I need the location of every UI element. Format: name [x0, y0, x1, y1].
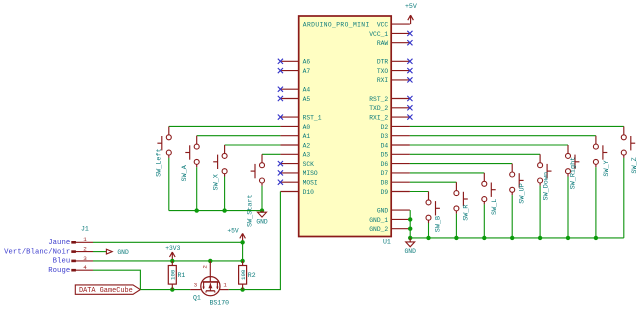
label Vert/Blanc/Noir [4, 248, 70, 256]
wire SW_Z to ground rail [623, 158, 625, 238]
wire SW_B to ground rail [428, 223, 430, 238]
svg-text:Vert/Blanc/Noir: Vert/Blanc/Noir [4, 248, 70, 256]
wire source to D10 [229, 192, 281, 290]
resistor R1 [168, 261, 185, 290]
transistor Q1 BS170 [190, 261, 229, 296]
svg-text:Q1: Q1 [193, 295, 201, 302]
svg-text:GND: GND [405, 248, 417, 255]
U1 pin RAW no-connect [377, 40, 413, 47]
label Jaune [48, 239, 70, 247]
junction left rail / SW_X [222, 208, 226, 212]
label SW_Left [156, 148, 164, 177]
svg-text:SW_A: SW_A [181, 164, 189, 181]
svg-text:D4: D4 [381, 142, 389, 149]
U1 pin RST_2 no-connect [369, 96, 412, 103]
wire A2 to SW_X [225, 144, 281, 146]
svg-text:D2: D2 [381, 124, 389, 131]
svg-text:SW_Z: SW_Z [631, 157, 639, 173]
U1 pin A7 no-connect [278, 68, 311, 75]
label SW_A [181, 164, 189, 181]
svg-text:A0: A0 [303, 124, 311, 131]
Q1 pin number 1 [223, 282, 227, 289]
wire D3 to SW_Y [410, 135, 596, 137]
wire SW_L to ground rail [483, 204, 485, 238]
wire pin2 to GND [93, 251, 106, 253]
svg-text:GND: GND [256, 219, 268, 226]
junction right rail / SW_Down [538, 236, 542, 240]
switch SW_Down [538, 154, 552, 186]
wire SW_Right to ground rail [567, 177, 569, 238]
U1 pin SCK no-connect [278, 161, 314, 168]
switch SW_Start [251, 154, 265, 186]
svg-text:2: 2 [201, 265, 208, 269]
U1 pin D2 [381, 124, 410, 131]
svg-text:A4: A4 [303, 87, 311, 94]
U1 pin D9 [381, 189, 410, 196]
label SW_Y [603, 160, 611, 176]
svg-text:TXD_2: TXD_2 [369, 105, 388, 112]
wire SW_R to ground rail [455, 214, 457, 238]
junction right rail / SW_UP [510, 236, 514, 240]
wire A3 to SW_Start [262, 153, 280, 155]
svg-text:SW_L: SW_L [491, 199, 499, 215]
switch SW_R [454, 182, 468, 214]
junction +5V / Jaune [240, 240, 244, 244]
label SW_Right [569, 157, 577, 190]
label Bleu [53, 258, 71, 266]
J1 pin 3 [71, 255, 93, 262]
U1 pin A4 no-connect [278, 87, 311, 94]
svg-text:TXO: TXO [377, 68, 389, 75]
U1 pin MOSI no-connect [278, 180, 318, 187]
label SW_Z [631, 157, 639, 173]
junction GND_1 [408, 217, 412, 221]
U1 pin D10 [280, 189, 314, 196]
U1 pin TXO no-connect [377, 68, 413, 75]
junction R1 bottom [170, 287, 174, 291]
ground GND below SW_Start [256, 211, 268, 226]
svg-text:J1: J1 [81, 226, 89, 233]
svg-text:D9: D9 [381, 189, 389, 196]
U1 pin DTR no-connect [377, 59, 413, 66]
svg-text:A1: A1 [303, 133, 311, 140]
J1 pin 4 [71, 264, 93, 271]
wire D2 to SW_Z [410, 125, 624, 127]
svg-text:SW_B: SW_B [434, 216, 442, 232]
svg-text:Bleu: Bleu [53, 258, 71, 266]
U1 pin TXD_2 no-connect [369, 105, 412, 112]
junction left rail / SW_Start [260, 208, 264, 212]
U1 pin D8 [381, 180, 410, 187]
svg-text:RST_1: RST_1 [303, 114, 322, 121]
wire GND pins to rail [409, 210, 411, 238]
wire D9 to SW_B [410, 191, 429, 193]
svg-text:ARDUINO_PRO_MINI: ARDUINO_PRO_MINI [303, 22, 370, 29]
svg-text:A3: A3 [303, 152, 311, 159]
svg-text:GND_2: GND_2 [369, 226, 388, 233]
U1 pin VCC [377, 22, 410, 29]
switch SW_X [213, 145, 227, 177]
svg-text:GND: GND [377, 207, 389, 214]
svg-text:SW_Down: SW_Down [542, 172, 550, 201]
U1 pin D6 [381, 161, 410, 168]
svg-text:SW_Y: SW_Y [603, 160, 611, 176]
junction R1 top / +3V3 [170, 259, 174, 263]
IC U1 ARDUINO_PRO_MINI body [299, 16, 392, 245]
junction right rail / SW_R [454, 236, 458, 240]
U1 pin GND [377, 207, 410, 214]
wire Bleu across [93, 260, 243, 262]
U1 pin A6 no-connect [278, 59, 311, 66]
wire Jaune to +5V [93, 241, 243, 243]
wire D5 to SW_Down [410, 153, 540, 155]
svg-text:A7: A7 [303, 68, 311, 75]
svg-text:Rouge: Rouge [48, 267, 70, 275]
U1 pin VCC_1 no-connect [369, 31, 412, 38]
svg-text:SW_R: SW_R [462, 204, 470, 220]
U1 pin D5 [381, 152, 410, 159]
U1 pin A5 no-connect [278, 96, 311, 103]
wire SW_Start to ground rail [261, 186, 263, 211]
junction R2 top / +5V [240, 259, 244, 263]
svg-text:VCC: VCC [377, 22, 389, 29]
U1 pin D4 [381, 142, 410, 149]
svg-text:R1: R1 [178, 272, 186, 279]
U1 pin MISO no-connect [278, 170, 318, 177]
svg-text:U1: U1 [383, 238, 391, 245]
svg-text:D8: D8 [381, 180, 389, 187]
svg-text:+3V3: +3V3 [165, 245, 180, 252]
label SW_UP [519, 183, 527, 203]
svg-text:2: 2 [83, 246, 87, 253]
junction right rail / SW_L [482, 236, 486, 240]
U1 pin GND_1 [369, 217, 410, 224]
svg-text:+5V: +5V [405, 3, 417, 10]
resistor R2 [239, 261, 256, 290]
label SW_X [213, 174, 221, 190]
svg-text:1: 1 [223, 282, 227, 289]
wire A1 to SW_A [197, 135, 281, 137]
svg-text:D6: D6 [381, 161, 389, 168]
junction rail corner [408, 236, 412, 240]
ground GND below U1 [405, 238, 417, 255]
wire right ground rail [410, 237, 624, 239]
label SW_L [491, 199, 499, 215]
Q1 reference [193, 295, 201, 302]
svg-text:100: 100 [240, 269, 247, 280]
svg-text:3: 3 [83, 255, 87, 262]
wire A0 to SW_Left [169, 125, 281, 127]
wire SW_A to ground rail [196, 167, 198, 210]
svg-text:RXI: RXI [377, 77, 389, 84]
ground GND right-arrow [106, 249, 129, 256]
wire SW_Left to ground rail [168, 158, 170, 211]
switch SW_Y [593, 136, 607, 168]
svg-text:RST_2: RST_2 [369, 96, 388, 103]
junction right rail / SW_Y [594, 236, 598, 240]
svg-text:4: 4 [83, 264, 87, 271]
switch SW_Right [566, 145, 580, 177]
switch SW_Z [621, 126, 635, 157]
U1 pin A0 [280, 124, 310, 131]
label SW_Start [247, 194, 255, 227]
switch SW_Left [157, 126, 171, 157]
U1 pin A1 [280, 133, 310, 140]
junction right rail / SW_B [426, 236, 430, 240]
svg-text:RAW: RAW [377, 40, 389, 47]
label SW_R [462, 204, 470, 220]
switch SW_A [185, 136, 199, 168]
U1 pin GND_2 [369, 226, 410, 233]
switch SW_L [482, 173, 496, 205]
power +3V3 [165, 245, 180, 261]
J1 pin 1 [71, 236, 93, 243]
U1 pin A2 [280, 142, 310, 149]
wire DATA to gate [140, 289, 190, 291]
junction GND_2 [408, 227, 412, 231]
svg-text:R2: R2 [248, 272, 256, 279]
wire Rouge to DATA node [93, 270, 140, 289]
junction R2 bottom [240, 287, 244, 291]
junction right rail / SW_Right [566, 236, 570, 240]
svg-text:D3: D3 [381, 133, 389, 140]
svg-text:DTR: DTR [377, 59, 389, 66]
Q1 pin number 3 [194, 282, 198, 289]
svg-text:VCC_1: VCC_1 [369, 31, 388, 38]
U1 pin D7 [381, 170, 410, 177]
wire D4 to SW_Right [410, 144, 568, 146]
svg-text:100: 100 [170, 269, 177, 280]
svg-text:A5: A5 [303, 96, 311, 103]
svg-text:SCK: SCK [303, 161, 315, 168]
label Rouge [48, 267, 70, 275]
svg-text:D7: D7 [381, 170, 389, 177]
svg-text:3: 3 [194, 282, 198, 289]
svg-text:A2: A2 [303, 142, 311, 149]
U1 pin A3 [280, 152, 310, 159]
svg-text:Jaune: Jaune [48, 239, 70, 247]
wire +5V down to R2 [242, 242, 244, 261]
svg-text:SW_UP: SW_UP [519, 183, 527, 203]
power +5V at GameCube [227, 227, 245, 242]
svg-text:D10: D10 [303, 189, 315, 196]
Q1 pin number 2 [201, 265, 208, 269]
svg-text:BS170: BS170 [210, 300, 230, 307]
wire D8 to SW_R [410, 181, 457, 183]
wire D7 to SW_L [410, 172, 484, 174]
U1 pin RST_1 no-connect [278, 114, 322, 121]
svg-text:D5: D5 [381, 152, 389, 159]
svg-text:SW_Right: SW_Right [569, 157, 577, 190]
svg-text:GND_1: GND_1 [369, 217, 388, 224]
global label DATA GameCube [75, 285, 140, 295]
wire D6 to SW_UP [410, 163, 512, 165]
switch SW_B [426, 192, 440, 224]
U1 pin RXI no-connect [377, 77, 413, 84]
connector J1 reference [81, 226, 89, 233]
svg-text:+5V: +5V [227, 227, 239, 234]
svg-text:MISO: MISO [303, 170, 318, 177]
svg-text:DATA GameCube: DATA GameCube [79, 287, 133, 295]
wire SW_X to ground rail [224, 177, 226, 211]
power +5V at VCC [405, 3, 417, 24]
svg-text:RXI_2: RXI_2 [369, 114, 388, 121]
svg-text:SW_Left: SW_Left [156, 148, 164, 177]
label SW_Down [542, 172, 550, 201]
svg-text:1: 1 [83, 236, 87, 243]
wire SW_Y to ground rail [595, 167, 597, 238]
svg-text:A6: A6 [303, 59, 311, 66]
U1 pin D3 [381, 133, 410, 140]
wire SW_Down to ground rail [539, 186, 541, 238]
svg-text:GND: GND [117, 249, 129, 256]
wire left ground rail [169, 210, 262, 212]
junction left rail / SW_A [195, 208, 199, 212]
svg-text:SW_X: SW_X [213, 174, 221, 190]
switch SW_UP [510, 164, 524, 196]
junction drain [208, 259, 212, 263]
svg-text:MOSI: MOSI [303, 180, 318, 187]
J1 pin 2 [71, 246, 93, 253]
Q1 value BS170 [210, 300, 230, 307]
U1 pin RXI_2 no-connect [369, 114, 412, 121]
label SW_B [434, 216, 442, 232]
wire SW_UP to ground rail [511, 195, 513, 238]
